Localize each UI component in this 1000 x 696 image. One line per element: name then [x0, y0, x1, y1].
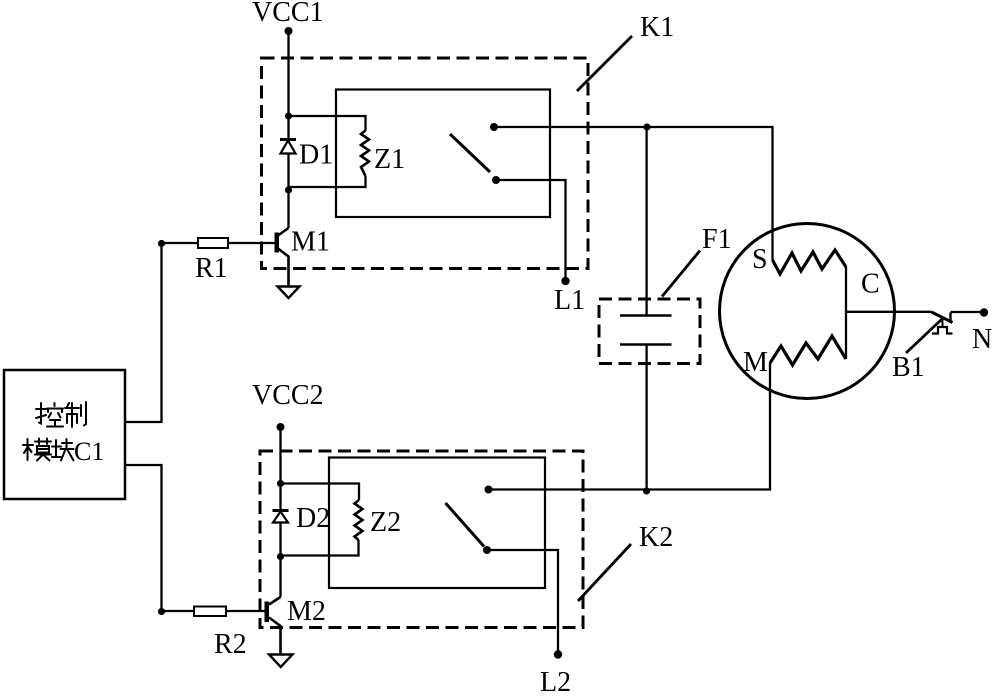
- svg-text:K2: K2: [639, 522, 673, 553]
- svg-text:N: N: [972, 324, 992, 355]
- svg-text:M1: M1: [291, 227, 330, 258]
- svg-text:D2: D2: [296, 503, 330, 534]
- svg-text:B1: B1: [892, 352, 925, 383]
- svg-text:L2: L2: [540, 667, 571, 691]
- svg-text:R1: R1: [195, 253, 228, 284]
- svg-text:S: S: [752, 244, 768, 275]
- svg-text:VCC1: VCC1: [252, 0, 324, 28]
- svg-text:C: C: [861, 269, 880, 300]
- svg-text:Z1: Z1: [374, 144, 405, 175]
- svg-text:F1: F1: [702, 224, 732, 255]
- svg-text:R2: R2: [214, 629, 247, 660]
- svg-text:Z2: Z2: [370, 507, 401, 538]
- svg-text:C1: C1: [74, 437, 104, 466]
- svg-text:M: M: [743, 347, 768, 378]
- svg-text:VCC2: VCC2: [252, 380, 324, 411]
- svg-text:K1: K1: [640, 12, 674, 43]
- svg-text:M2: M2: [287, 596, 326, 627]
- svg-text:D1: D1: [299, 140, 333, 171]
- svg-text:L1: L1: [554, 285, 585, 316]
